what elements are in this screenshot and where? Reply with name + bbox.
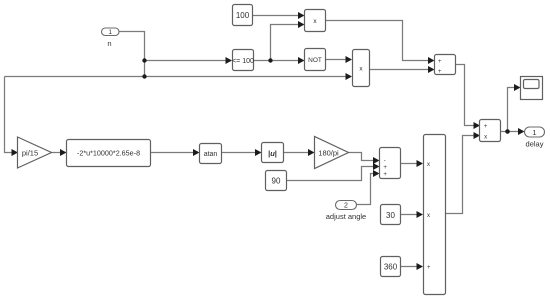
svg-text:-: - xyxy=(384,159,386,165)
trigonometric function atan xyxy=(200,144,222,164)
fcn -2*u*10000*2.65e-8 xyxy=(67,140,151,167)
wire abs to gain2 xyxy=(284,152,310,154)
arrowhead into abs xyxy=(255,149,262,156)
wire to relational operator xyxy=(145,60,227,62)
arrowhead into product1 input1 xyxy=(298,12,305,19)
svg-text:pi/15: pi/15 xyxy=(22,148,38,157)
arrowhead into NOT xyxy=(298,57,305,64)
add block U3 xyxy=(435,55,456,75)
constant 100 xyxy=(233,5,253,26)
add block U5 xyxy=(380,148,401,179)
wire branch up to scope xyxy=(508,88,516,132)
wire atan to abs xyxy=(222,152,257,154)
arrowhead into scope xyxy=(514,84,521,91)
svg-text:NOT: NOT xyxy=(308,57,322,64)
wire add1 to final block xyxy=(456,65,475,126)
arrowhead into product3 input2 xyxy=(417,211,424,218)
svg-text:n: n xyxy=(107,39,111,48)
outport 1 delay xyxy=(525,127,545,149)
wire constant 30 to product3 xyxy=(401,214,418,216)
svg-text:+: + xyxy=(438,69,442,75)
gain pi/15 xyxy=(18,137,52,168)
constant 90 xyxy=(266,171,287,191)
svg-text:30: 30 xyxy=(386,211,395,220)
abs block xyxy=(262,143,284,163)
svg-text:adjust angle: adjust angle xyxy=(326,212,366,221)
svg-text:atan: atan xyxy=(204,151,218,158)
wire constant 360 to product3 xyxy=(401,266,418,268)
svg-text:delay: delay xyxy=(526,140,544,149)
wire constant 100 to product xyxy=(253,15,300,17)
arrowhead into add2 input3 xyxy=(373,170,380,177)
svg-text:x: x xyxy=(427,213,430,219)
svg-text:90: 90 xyxy=(272,177,281,186)
wire branch up to product input2 xyxy=(271,25,300,61)
wire final block to outport xyxy=(501,131,520,133)
wire relational to NOT xyxy=(254,60,300,62)
svg-text:100: 100 xyxy=(236,11,250,20)
svg-text:+: + xyxy=(383,172,387,178)
arrowhead into product1 input2 xyxy=(298,21,305,28)
wire product3 to final block xyxy=(445,136,475,214)
svg-text:180/pi: 180/pi xyxy=(318,148,339,157)
constant 360 xyxy=(381,257,401,277)
logical operator NOT xyxy=(305,49,326,71)
svg-text:1: 1 xyxy=(108,29,112,36)
arrowhead into final input2 xyxy=(474,132,481,139)
wire constant 90 to add2 xyxy=(287,167,375,181)
svg-text:+: + xyxy=(484,124,488,130)
constant 30 xyxy=(381,205,401,225)
wire fcn to atan xyxy=(151,152,195,154)
junction dot A xyxy=(142,58,146,62)
sum product block U4 xyxy=(480,120,501,142)
inport 1 n xyxy=(102,28,120,48)
arrowhead into add1 input1 xyxy=(428,57,435,64)
svg-text:x: x xyxy=(484,134,487,140)
wire inport2 to add2 xyxy=(357,174,375,205)
svg-text:<= 100: <= 100 xyxy=(232,58,254,65)
arrowhead into product3 input1 xyxy=(417,160,424,167)
wire gain2 to add2 xyxy=(349,153,375,161)
arrowhead into outport delay xyxy=(518,128,525,135)
arrowhead into product2 input2 xyxy=(346,73,353,80)
svg-text:+: + xyxy=(383,165,387,171)
wire left vertical to gain xyxy=(5,77,13,153)
svg-text:2: 2 xyxy=(344,203,348,210)
arrowhead into add1 input2 xyxy=(428,66,435,73)
wire from inport n xyxy=(119,32,145,77)
arrowhead into product2 input1 xyxy=(346,56,353,63)
arrowhead into gain2 xyxy=(308,149,315,156)
svg-text:360: 360 xyxy=(384,263,398,272)
scope xyxy=(521,77,543,100)
arrowhead into product3 input3 xyxy=(417,263,424,270)
junction dot B xyxy=(142,74,146,78)
arrowhead into atan xyxy=(193,149,200,156)
wire NOT to product2 xyxy=(326,59,347,61)
wire add2 to product3 xyxy=(401,163,418,165)
svg-text:+: + xyxy=(427,265,431,271)
gain 180/pi xyxy=(315,137,349,169)
arrowhead into gain pi15 xyxy=(12,149,19,156)
svg-text:1: 1 xyxy=(532,128,536,137)
junction dot D xyxy=(505,129,510,134)
wire product2 to add1 xyxy=(370,69,430,71)
wire product1 to add1 xyxy=(326,21,430,61)
arrowhead into fcn xyxy=(60,149,67,156)
product x U1 xyxy=(305,10,326,32)
junction dot C xyxy=(268,58,272,62)
inport 2 adjust angle xyxy=(326,201,366,222)
wire gain1 to fcn xyxy=(52,152,62,154)
product tall U6 xyxy=(424,135,446,295)
svg-text:-2*u*10000*2.65e-8: -2*u*10000*2.65e-8 xyxy=(77,149,140,158)
svg-text:+: + xyxy=(438,59,442,65)
relational operator <= 100 xyxy=(232,50,254,71)
arrowhead into add2 input2 xyxy=(373,163,380,170)
arrowhead into add2 input1 xyxy=(373,157,380,164)
svg-text:|u|: |u| xyxy=(268,149,277,158)
arrowhead into relational operator xyxy=(226,57,233,64)
svg-text:x: x xyxy=(427,162,430,168)
wire long feedback horizontal xyxy=(5,76,347,78)
arrowhead into final input1 xyxy=(474,122,481,129)
product x U2 xyxy=(353,50,370,87)
